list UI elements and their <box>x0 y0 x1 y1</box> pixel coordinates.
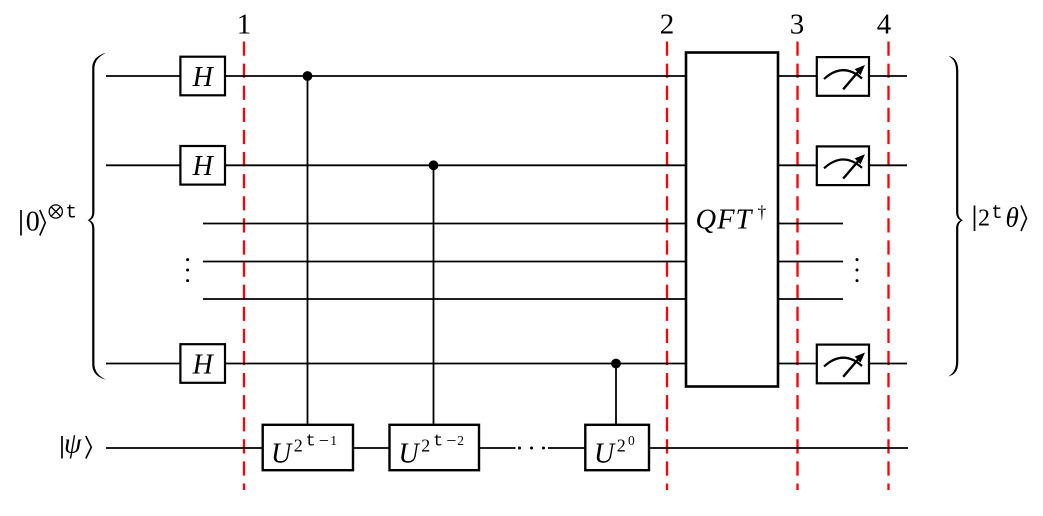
wire psi right segment <box>548 447 908 449</box>
svg-text:4: 4 <box>877 9 892 41</box>
wire psi left segment <box>106 447 516 449</box>
svg-text:ψ: ψ <box>64 429 82 460</box>
gate U3 (U^2^0) <box>585 425 649 470</box>
wire q6 <box>106 363 907 365</box>
svg-text:t: t <box>66 201 77 223</box>
svg-text:t: t <box>306 433 316 452</box>
svg-text:2: 2 <box>421 435 430 455</box>
barrier line 1 (red dashed) <box>243 42 245 491</box>
wire q5 <box>203 298 843 300</box>
svg-text:2: 2 <box>294 435 303 455</box>
wire q4 <box>203 261 843 263</box>
svg-text:−: − <box>446 431 456 451</box>
QFT-dagger box <box>686 53 778 387</box>
vdots between wires q4 and q5 left side <box>186 258 189 282</box>
left brace grouping t qubits <box>88 53 107 380</box>
svg-text:t: t <box>991 202 1002 224</box>
barrier line 4 (red dashed) <box>887 42 889 491</box>
svg-text:3: 3 <box>790 9 805 41</box>
svg-text:t: t <box>433 433 443 452</box>
svg-text:H: H <box>192 349 215 380</box>
wire q2 <box>106 164 907 166</box>
wire q3 <box>203 223 843 225</box>
ket label |psi> <box>62 429 91 460</box>
control wire from q2 to U2 <box>433 165 435 427</box>
svg-text:2: 2 <box>617 435 626 455</box>
measurement meter on q2 <box>817 146 869 185</box>
control dot on q2 <box>429 160 439 170</box>
H gate on q6 <box>180 344 225 383</box>
right brace grouping measured qubits <box>948 56 963 376</box>
svg-text:H: H <box>192 151 215 182</box>
svg-text:2: 2 <box>660 9 675 41</box>
ket label |2^t theta> <box>975 202 1027 232</box>
wire q1 <box>106 75 907 77</box>
svg-text:θ: θ <box>1006 202 1019 232</box>
ket label |0>^(tensor t) <box>21 201 77 237</box>
svg-text:†: † <box>758 202 767 222</box>
barrier line 3 (red dashed) <box>796 42 798 491</box>
measurement meter on q1 <box>817 57 869 96</box>
gate U2 (U^2^t-2) <box>390 425 480 470</box>
measurement meter on q6 <box>817 345 869 384</box>
svg-text:−: − <box>319 431 329 451</box>
svg-text:H: H <box>192 62 215 93</box>
control dot on q6 <box>611 359 621 369</box>
svg-text:1: 1 <box>330 433 337 448</box>
H gate on q1 <box>180 57 225 96</box>
svg-text:2: 2 <box>457 433 464 448</box>
svg-text:1: 1 <box>237 9 252 41</box>
svg-text:U: U <box>399 439 421 470</box>
svg-text:U: U <box>594 439 616 470</box>
svg-text:0: 0 <box>628 433 635 448</box>
H gate on q2 <box>180 146 225 185</box>
svg-text:2: 2 <box>978 206 990 232</box>
svg-text:QFT: QFT <box>696 205 754 236</box>
control wire from q1 to U1 <box>307 76 309 427</box>
svg-text:0: 0 <box>26 207 40 238</box>
gate U1 (U^2^t-1) <box>263 425 353 470</box>
svg-text:U: U <box>271 439 293 470</box>
barrier line 2 (red dashed) <box>666 42 668 491</box>
control dot on q1 <box>303 71 313 81</box>
vdots right side <box>856 258 859 282</box>
control wire from q6 to U3 <box>615 364 617 428</box>
cdots on psi wire <box>518 447 545 450</box>
